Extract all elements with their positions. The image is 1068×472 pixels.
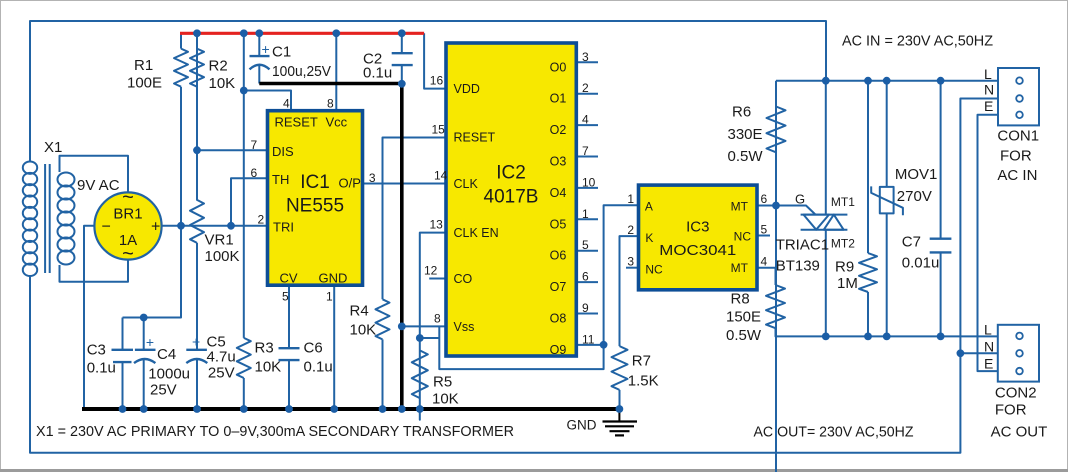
svg-text:2: 2 (582, 81, 589, 95)
svg-text:4: 4 (283, 97, 290, 111)
svg-text:O2: O2 (550, 123, 567, 137)
svg-text:CON2: CON2 (995, 385, 1037, 402)
svg-text:13: 13 (430, 218, 444, 232)
resistor R9 (859, 253, 877, 292)
svg-text:0.5W: 0.5W (728, 148, 764, 165)
svg-text:IC3: IC3 (686, 219, 709, 236)
wire: IC3 K pin 2 down to R7 (620, 236, 639, 346)
wire: secondary top to BR1 AC input (60, 156, 129, 193)
svg-text:O9: O9 (550, 343, 567, 357)
svg-text:AC OUT: AC OUT (991, 424, 1048, 441)
svg-text:2: 2 (258, 213, 265, 227)
optocoupler IC3 MOC3041 box (639, 185, 758, 290)
svg-text:3: 3 (582, 50, 589, 64)
svg-text:RESET: RESET (275, 115, 318, 130)
wire: secondary bottom to BR1 AC input (60, 260, 129, 282)
capacitor C6 plates (279, 348, 300, 360)
svg-text:CLK: CLK (454, 177, 479, 191)
svg-text:MT2: MT2 (831, 237, 855, 251)
svg-text:FOR: FOR (1000, 148, 1032, 165)
svg-text:1M: 1M (837, 275, 858, 292)
svg-text:R6: R6 (732, 104, 751, 121)
resistor R4 (376, 299, 390, 339)
svg-text:AC IN = 230V AC,50HZ: AC IN = 230V AC,50HZ (842, 33, 993, 50)
svg-text:330E: 330E (728, 126, 763, 143)
wire: IC3 NC pin 3 stub (626, 267, 639, 269)
svg-text:GND: GND (567, 418, 597, 433)
svg-text:VR1: VR1 (205, 232, 234, 249)
svg-text:+: + (146, 334, 154, 350)
svg-text:CON1: CON1 (997, 128, 1039, 145)
svg-text:25V: 25V (150, 382, 177, 399)
svg-text:1: 1 (627, 192, 634, 206)
svg-text:R9: R9 (835, 259, 854, 276)
svg-text:14: 14 (434, 169, 448, 183)
wire: TH pin 6 tied to TRI (231, 178, 268, 226)
svg-text:5: 5 (282, 290, 289, 304)
svg-text:G: G (795, 192, 805, 207)
AC-IN rail (L, 230V in) (776, 80, 998, 82)
svg-text:10K: 10K (209, 75, 236, 92)
resistor R5 (412, 338, 428, 420)
svg-text:C7: C7 (902, 234, 921, 251)
+V red rail from BR1/R1 to VDD (180, 32, 424, 35)
svg-text:4.7u: 4.7u (207, 349, 236, 366)
svg-text:−: − (102, 219, 111, 236)
capacitor C2 leads (401, 33, 403, 84)
transformer X1 core (45, 164, 50, 273)
svg-text:10K: 10K (350, 322, 377, 339)
svg-text:Vcc: Vcc (326, 115, 348, 130)
svg-text:E: E (984, 356, 993, 372)
svg-text:100K: 100K (205, 248, 240, 265)
svg-text:O/P: O/P (339, 176, 361, 191)
wire: IC3 MT pin 6 to gate node (757, 205, 776, 207)
svg-text:9: 9 (582, 301, 589, 315)
svg-text:1.5K: 1.5K (628, 373, 659, 390)
capacitor C7 leads (940, 81, 942, 337)
capacitor C3 leads (122, 318, 124, 409)
wire: TRI pin 2 / VR1 wiper line (181, 225, 268, 227)
svg-text:TRIAC1: TRIAC1 (776, 237, 829, 254)
svg-text:150E: 150E (726, 309, 761, 326)
wire: IC3 NC pin 5 stub (757, 235, 770, 237)
svg-text:BT139: BT139 (776, 258, 820, 275)
wire: R3 to ground rail (243, 378, 245, 408)
svg-text:5: 5 (761, 223, 768, 237)
svg-text:N: N (984, 339, 994, 355)
svg-text:O6: O6 (550, 249, 567, 263)
svg-text:C4: C4 (157, 346, 176, 363)
svg-text:10K: 10K (255, 359, 282, 376)
wire: R5 node loop to Vss line and long run to O9 node (420, 326, 604, 369)
capacitor C4 leads (143, 318, 145, 409)
wire: CON1 E down to CON2 E (978, 115, 999, 371)
wire: GND pin 1 to ground rail (333, 285, 335, 408)
svg-text:4: 4 (582, 113, 589, 127)
svg-text:0.1u: 0.1u (87, 360, 116, 377)
wire: IC2 RESET pin 15 down to R4 (383, 138, 447, 300)
resistor R3 (237, 338, 251, 378)
bridge rectifier BR1 (94, 192, 161, 259)
svg-text:TRI: TRI (273, 220, 294, 235)
svg-text:MT: MT (731, 200, 749, 214)
wire: Vcc pin 8 from +V rail (335, 33, 337, 110)
svg-text:4: 4 (761, 255, 768, 269)
capacitor C2 plates (392, 53, 413, 65)
svg-text:TH: TH (272, 172, 289, 187)
wire: gate lead into triac (776, 206, 816, 215)
connector CON1 box (998, 68, 1039, 125)
svg-text:6: 6 (251, 166, 258, 180)
svg-text:NE555: NE555 (286, 196, 344, 217)
svg-text:10: 10 (582, 175, 596, 189)
wire: CV pin 5 to C6 (288, 285, 290, 408)
svg-text:IC1: IC1 (300, 172, 330, 193)
connector CON2 box (998, 325, 1039, 382)
svg-text:4017B: 4017B (484, 187, 539, 208)
op-amp/timer IC1 NE555 box (268, 111, 363, 286)
transformer X1 primary winding (23, 161, 37, 173)
resistor R2 (190, 33, 204, 197)
svg-text:IC2: IC2 (496, 163, 526, 184)
capacitor C3 plates (112, 350, 134, 362)
svg-text:Vss: Vss (454, 320, 475, 334)
wire: RESET pin 4 tied to +V rail, continues down to R3 (244, 33, 291, 338)
svg-text:VDD: VDD (454, 82, 480, 96)
svg-text:3: 3 (369, 171, 376, 185)
svg-text:100u,25V: 100u,25V (272, 63, 331, 80)
capacitor C5 bottom lead (196, 360, 198, 409)
varistor MOV1 body (880, 187, 894, 214)
wire: O9 node up to IC3 A pin 1 (604, 205, 639, 345)
svg-text:R4: R4 (350, 303, 369, 320)
svg-text:NC: NC (645, 263, 663, 277)
svg-text:25V: 25V (208, 365, 235, 382)
svg-text:+: + (151, 219, 160, 236)
svg-text:5: 5 (582, 238, 589, 252)
svg-text:16: 16 (430, 74, 444, 88)
capacitor C5 plates (4.7u electrolytic) (186, 349, 207, 351)
svg-text:0.01u: 0.01u (902, 255, 940, 272)
svg-text:~: ~ (122, 243, 134, 265)
svg-text:BR1: BR1 (113, 206, 142, 223)
transformer X1 secondary winding (58, 173, 75, 187)
svg-text:R1: R1 (134, 57, 153, 74)
wire: CO pin 12 stub (429, 278, 446, 280)
svg-text:2: 2 (627, 223, 634, 237)
wire: Vss pin 8 to ground bus (402, 325, 446, 327)
svg-text:3: 3 (627, 255, 634, 269)
wire: triac MT2 down to AC-OUT rail (825, 230, 827, 337)
ground bus from C1/C2 down to ground rail (259, 84, 402, 410)
svg-text:N: N (984, 82, 994, 98)
svg-text:0.1u: 0.1u (363, 65, 392, 82)
svg-text:A: A (645, 200, 653, 214)
svg-text:R7: R7 (632, 353, 651, 370)
wire: R7 to ground rail end (619, 390, 621, 408)
svg-text:O5: O5 (550, 217, 567, 231)
svg-text:E: E (984, 98, 993, 114)
wire: mains N path - primary bottom, down left side, along bottom, up to CON1 N (30, 99, 998, 453)
potentiometer VR1 (190, 150, 204, 350)
svg-text:8: 8 (434, 312, 441, 326)
svg-text:MT1: MT1 (831, 195, 855, 209)
capacitor C1 leads (258, 33, 260, 83)
wire: VDD pin 16 from +V rail end (424, 33, 446, 88)
svg-text:MT: MT (731, 261, 749, 275)
svg-text:1: 1 (582, 207, 589, 221)
svg-text:C6: C6 (304, 340, 323, 357)
svg-text:CLK EN: CLK EN (454, 226, 499, 240)
svg-text:15: 15 (432, 123, 446, 137)
svg-text:O3: O3 (550, 155, 567, 169)
svg-text:O0: O0 (550, 60, 567, 74)
wire: R4 to ground rail (382, 339, 384, 408)
capacitor C7 plates (930, 239, 952, 253)
svg-text:8: 8 (327, 97, 334, 111)
wire: mains L loop from transformer primary top over the top to AC-IN rail (30, 21, 826, 162)
IC2 output stubs O0-O8 (576, 62, 598, 313)
svg-text:GND: GND (319, 271, 348, 286)
resistor R7 (612, 346, 628, 390)
svg-text:R3: R3 (255, 340, 274, 357)
svg-text:+: + (192, 334, 200, 350)
svg-text:O4: O4 (550, 186, 567, 200)
svg-text:0.1u: 0.1u (304, 359, 333, 376)
wire: IC3 MT pin 4 to R8 (757, 268, 776, 285)
counter IC2 4017B box (446, 43, 576, 356)
resistor R6 (767, 81, 786, 472)
wire: +V column (R1/BR1+/C3-C4 header riser) (123, 33, 182, 317)
svg-text:X1: X1 (44, 139, 62, 156)
svg-text:7: 7 (251, 138, 258, 152)
svg-text:100E: 100E (127, 75, 162, 92)
svg-text:CO: CO (454, 272, 473, 286)
wire: DIS pin 7 line (197, 149, 268, 151)
svg-text:DIS: DIS (272, 144, 294, 159)
resistor R8 (766, 285, 785, 328)
svg-text:X1 = 230V AC PRIMARY TO 0–9V,3: X1 = 230V AC PRIMARY TO 0–9V,300mA SECON… (36, 423, 514, 440)
varistor MOV1 leads (886, 81, 888, 337)
resistor R9 leads (867, 81, 869, 337)
svg-text:O7: O7 (550, 280, 567, 294)
svg-text:L: L (984, 66, 992, 82)
svg-text:C1: C1 (272, 44, 291, 61)
svg-text:FOR: FOR (995, 402, 1027, 419)
wire: O/P pin 3 to IC2 CLK pin 14 (363, 183, 447, 185)
svg-text:9V AC: 9V AC (77, 177, 120, 194)
svg-text:K: K (645, 231, 653, 245)
svg-text:6: 6 (582, 270, 589, 284)
wire: CLK EN pin 13 down to R5 top node (420, 233, 446, 338)
svg-text:O8: O8 (550, 312, 567, 326)
wire: CON2 N tap (960, 352, 997, 354)
svg-text:12: 12 (424, 264, 438, 278)
svg-text:MOC3041: MOC3041 (659, 242, 736, 259)
svg-text:R5: R5 (433, 374, 452, 391)
wire: BR1 minus output down to ground rail (84, 226, 95, 408)
wire: triac MT1 up to AC-IN rail (825, 81, 827, 215)
svg-text:6: 6 (761, 192, 768, 206)
svg-text:1000u: 1000u (148, 366, 190, 383)
svg-text:10K: 10K (432, 391, 459, 408)
svg-text:O1: O1 (550, 92, 567, 106)
triac TRIAC1 symbol (801, 215, 848, 230)
svg-text:0.5W: 0.5W (726, 327, 762, 344)
ground rail (bottom bus) (82, 407, 619, 411)
svg-text:7: 7 (582, 144, 589, 158)
svg-text:270V: 270V (897, 188, 932, 205)
svg-text:R8: R8 (731, 291, 750, 308)
wire: BR1 plus output to R1 column (162, 225, 182, 227)
capacitor C1 plates (100u electrolytic) (250, 55, 270, 57)
svg-text:11: 11 (582, 332, 595, 346)
svg-text:MOV1: MOV1 (895, 166, 938, 183)
svg-text:L: L (984, 322, 992, 338)
svg-text:AC OUT= 230V AC,50HZ: AC OUT= 230V AC,50HZ (754, 424, 914, 441)
svg-text:1: 1 (326, 290, 333, 304)
svg-text:AC IN: AC IN (997, 167, 1037, 184)
svg-text:C3: C3 (87, 342, 106, 359)
capacitor C4 plates (1000u electrolytic) (135, 349, 156, 351)
svg-text:R2: R2 (209, 58, 228, 75)
AC-OUT rail (L, to CON2) (776, 328, 998, 336)
svg-text:RESET: RESET (454, 131, 496, 145)
ground symbol (603, 409, 638, 435)
svg-text:CV: CV (280, 271, 298, 286)
wire: O9 pin 11 to junction node (576, 344, 603, 346)
svg-text:+: + (262, 41, 270, 57)
resistor R1 (174, 49, 188, 87)
